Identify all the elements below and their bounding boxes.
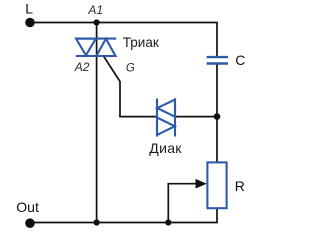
junction: triac A2 on bottom rail [94,219,100,225]
capacitor C (plates) [207,57,229,63]
svg-text:Диак: Диак [149,140,182,156]
node A1 (junction dot) [94,19,100,25]
wire capacitor C to diac junction [216,64,218,117]
svg-text:A2: A2 [74,60,90,74]
wire resistor R bottom to bottom rail corner [97,208,217,223]
resistor R (potentiometer body) [207,162,226,208]
svg-text:Out: Out [16,199,39,215]
wire bottom rail to terminal Out [30,222,97,224]
diac upper triangle [157,100,175,117]
triac right triangle [96,39,115,56]
triac left triangle [76,39,96,56]
triac bottom bar (A2 side) [76,55,116,57]
wire potentiometer wiper to bottom rail [168,184,203,223]
svg-text:C: C [235,52,245,68]
wire diac to capacitor branch junction [176,116,218,118]
junction: diac / capacitor / resistor node [214,113,221,120]
wire node A1 through triac down to bottom rail [96,23,98,223]
wire L to node A1 (top horizontal, left part) [30,22,97,24]
triac (Триак) symbol [76,39,116,56]
terminal Out (dot) [25,218,35,228]
wire node A1 to top-right corner and down to capacitor C [97,23,217,58]
diac right electrode bar [174,99,176,137]
diac left electrode bar [156,99,158,137]
terminal L (dot) [25,18,35,28]
svg-text:G: G [126,63,135,75]
triac top bar (A1 side) [76,38,116,40]
wire triac gate G to diac (gate lead) [104,56,157,117]
svg-text:L: L [25,1,33,17]
diac (Диак) symbol [157,99,175,137]
potentiometer wiper arrowhead [196,179,207,189]
junction: wiper on bottom rail [165,219,171,225]
svg-text:A1: A1 [87,3,103,17]
svg-text:Триак: Триак [123,35,159,50]
wire diac junction down to resistor R top [216,117,218,163]
diac lower triangle [157,118,175,135]
svg-text:R: R [235,178,245,194]
